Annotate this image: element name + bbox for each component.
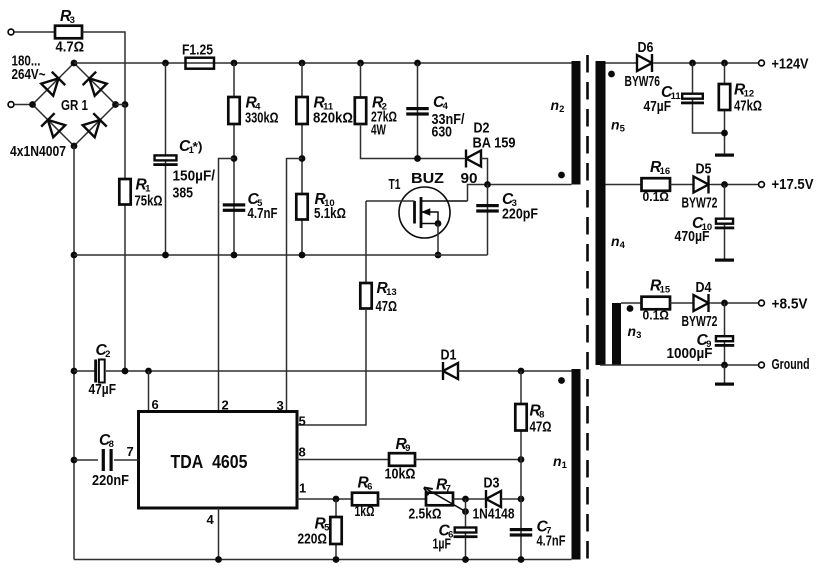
wire (82, 32, 125, 105)
wire (14, 31, 55, 33)
svg-text:10kΩ: 10kΩ (385, 467, 416, 483)
junction (215, 556, 222, 563)
node: R3 to bridge (122, 101, 129, 108)
wire: pin 4 to bus (218, 508, 220, 560)
junction (71, 252, 78, 259)
svg-text:+8.5V: +8.5V (772, 295, 808, 312)
svg-text:3: 3 (277, 398, 284, 413)
resistor R9 (389, 453, 415, 466)
junction (435, 252, 442, 259)
junction (518, 368, 525, 375)
terminal +17.5V (759, 182, 765, 188)
svg-text:75kΩ: 75kΩ (135, 193, 163, 209)
junction (721, 181, 728, 188)
resistor R11 (296, 97, 307, 124)
wire (233, 63, 235, 255)
resistor R4 (228, 97, 239, 124)
wire: to pin 3 (287, 159, 303, 412)
junction (299, 60, 306, 67)
junction (518, 456, 525, 463)
capacitor C4 (406, 107, 429, 116)
capacitor C5 (223, 203, 246, 212)
svg-text:16: 16 (660, 166, 671, 177)
wire: primary bottom bus (74, 559, 572, 561)
svg-text:n: n (628, 323, 637, 339)
svg-text:4.7Ω: 4.7Ω (56, 40, 85, 56)
svg-text:470µF: 470µF (675, 229, 710, 245)
svg-text:n: n (611, 117, 620, 133)
resistor R3 (55, 26, 82, 39)
wire (365, 201, 367, 283)
svg-text:1: 1 (299, 481, 306, 496)
wire: R13 to pin 5 (297, 309, 366, 426)
ground (124V return) (715, 154, 734, 157)
svg-text:0.1Ω: 0.1Ω (643, 308, 670, 322)
junction (122, 368, 129, 375)
AC input terminal L (8, 29, 14, 35)
svg-text:5.1kΩ: 5.1kΩ (314, 206, 346, 222)
wire (606, 184, 642, 186)
wire (378, 498, 426, 500)
resistor R1 (119, 179, 130, 205)
wire (297, 459, 389, 461)
svg-text:D5: D5 (696, 162, 712, 178)
transformer winding n1 (572, 369, 581, 560)
svg-text:3: 3 (636, 330, 641, 341)
capacitor C2 (94, 360, 105, 383)
wire (670, 184, 693, 186)
junction (333, 496, 340, 503)
diode D2 (466, 150, 481, 168)
wire: source to bus (437, 224, 439, 256)
wire: C10 branch (724, 185, 726, 259)
junction (162, 252, 169, 259)
wire (165, 63, 167, 255)
svg-text:4.7nF: 4.7nF (537, 534, 566, 550)
junction (721, 300, 728, 307)
junction (721, 60, 728, 67)
trimmer R7 wiper arrow (424, 488, 466, 512)
wire: R12 branch (724, 63, 726, 154)
bridge diode bottom-right (82, 113, 107, 138)
svg-text:1: 1 (562, 460, 568, 471)
resistor R10 (296, 194, 307, 220)
junction (231, 252, 238, 259)
svg-text:220nF: 220nF (92, 473, 129, 489)
svg-text:4.7nF: 4.7nF (248, 206, 278, 222)
svg-text:TDA 4605: TDA 4605 (171, 451, 248, 472)
svg-text:220pF: 220pF (502, 207, 538, 223)
terminal Ground (759, 362, 765, 368)
svg-text:2.5kΩ: 2.5kΩ (409, 507, 442, 523)
junction (462, 556, 469, 563)
resistor R6 (352, 493, 378, 506)
wire (301, 63, 303, 255)
svg-text:GR 1: GR 1 (61, 98, 88, 114)
resistor R5 (330, 517, 341, 544)
junction (721, 362, 728, 369)
fuse F1.25 (186, 58, 215, 69)
svg-text:1N4148: 1N4148 (473, 507, 515, 523)
capacitor C10 (715, 219, 735, 230)
transistor T1 BUZ 90 (MOSFET) (399, 187, 468, 238)
svg-text:F1.25: F1.25 (182, 43, 213, 59)
junction (414, 155, 421, 162)
wire (360, 63, 362, 98)
junction (357, 60, 364, 67)
wire: secondary ground row (600, 364, 759, 366)
junction (721, 130, 728, 137)
svg-text:D6: D6 (638, 40, 654, 56)
junction (518, 496, 525, 503)
svg-text:150µF/: 150µF/ (173, 168, 216, 184)
bridge diode bottom-left (41, 113, 66, 138)
wire: to pin 2 (219, 159, 235, 412)
wire: drain row to n2 (468, 185, 572, 202)
junction: drain/C3/D2 (484, 181, 491, 188)
wire (453, 498, 484, 500)
svg-text:n: n (611, 233, 620, 249)
svg-text:820kΩ: 820kΩ (313, 111, 353, 127)
junction (689, 60, 696, 67)
svg-text:n: n (553, 453, 562, 469)
wire: rectified + bus (74, 62, 572, 64)
svg-text:D3: D3 (484, 476, 500, 492)
junction (71, 457, 78, 464)
AC input terminal N (8, 102, 14, 108)
svg-text:4: 4 (620, 240, 626, 251)
wire: D2 to drain node (481, 159, 488, 185)
phase dot n2 (558, 172, 565, 179)
IC U1 TDA 4605 (139, 412, 298, 509)
transformer winding n2 (572, 61, 581, 185)
phase dot n5 (608, 71, 615, 78)
diode D5 (694, 176, 709, 194)
bridge diode top-right (83, 72, 108, 97)
svg-text:2: 2 (559, 104, 564, 115)
wire (116, 104, 126, 106)
svg-text:4x1N4007: 4x1N4007 (10, 144, 66, 160)
svg-text:6: 6 (367, 482, 372, 493)
transformer winding n3 (612, 303, 621, 365)
wire: +124V rail (654, 62, 759, 64)
wire (335, 499, 337, 560)
wire (621, 302, 642, 304)
svg-text:1kΩ: 1kΩ (355, 504, 375, 520)
wire: D1 to n1 (458, 370, 572, 372)
svg-text:1000µF: 1000µF (667, 346, 713, 362)
wire (417, 63, 419, 159)
junction (71, 368, 78, 375)
wire: R8 branch (520, 371, 522, 499)
wire (670, 302, 693, 304)
svg-text:Ground: Ground (772, 356, 810, 373)
wire (297, 498, 352, 500)
wire: snubber row (361, 124, 465, 159)
ground (17.5V return) (715, 259, 734, 262)
svg-text:0.1Ω: 0.1Ω (643, 190, 670, 204)
svg-text:BUZ: BUZ (411, 171, 444, 187)
wire (487, 185, 489, 256)
capacitor C3 (476, 204, 499, 213)
svg-text:8: 8 (109, 439, 114, 450)
wire: negative rail (73, 146, 75, 560)
resistor R13 (360, 283, 371, 309)
phase dot n1 (558, 377, 565, 384)
junction (145, 368, 152, 375)
transformer winding n5/n4 (596, 61, 606, 365)
terminal +124V (759, 60, 765, 66)
phase dot n3 (627, 305, 634, 312)
svg-text:4: 4 (207, 512, 215, 527)
junction: R11/R10/pin3 (299, 155, 306, 162)
wire: C11 branch (693, 63, 725, 133)
wire: gate lead (366, 200, 415, 202)
wire: to pin 7 (114, 459, 139, 461)
svg-text:47µF: 47µF (89, 382, 117, 398)
svg-text:BYW72: BYW72 (682, 196, 718, 212)
resistor R7 (trimmer) (426, 493, 453, 506)
svg-text:T1: T1 (389, 177, 401, 193)
junction (518, 556, 525, 563)
svg-text:220Ω: 220Ω (298, 532, 328, 548)
svg-text:4W: 4W (371, 123, 386, 139)
wire (14, 104, 33, 106)
wire: VCC row to D1 (106, 370, 441, 372)
svg-text:+17.5V: +17.5V (772, 176, 814, 193)
node: bridge minus (71, 143, 78, 150)
svg-text:2: 2 (222, 398, 229, 413)
diode D4 (694, 294, 709, 312)
diode D3 (486, 490, 501, 508)
junction (462, 496, 469, 503)
junction (162, 60, 169, 67)
capacitor C1 (153, 155, 177, 166)
svg-text:47kΩ: 47kΩ (734, 99, 762, 115)
svg-text:4: 4 (443, 101, 449, 112)
junction: T1 source (435, 220, 442, 227)
junction (414, 60, 421, 67)
svg-text:2: 2 (105, 349, 110, 360)
wire (415, 459, 521, 461)
svg-text:BA 159: BA 159 (473, 136, 516, 152)
svg-text:330kΩ: 330kΩ (245, 111, 279, 127)
wire: to pin 6 (148, 371, 150, 412)
wire (711, 302, 759, 304)
diode D1 (443, 362, 458, 380)
ground (chassis) (715, 383, 734, 386)
svg-text:*): *) (193, 139, 203, 154)
junction (299, 252, 306, 259)
svg-text:7: 7 (446, 484, 451, 495)
svg-text:n: n (551, 97, 560, 113)
resistor R16 (642, 178, 671, 191)
diode D6 (637, 54, 652, 72)
svg-text:5: 5 (620, 124, 626, 135)
capacitor C7 (510, 528, 533, 537)
isolation barrier (dashed) (586, 55, 589, 562)
wire: C9 branch (724, 303, 726, 365)
bridge diode top-left (40, 72, 65, 97)
capacitor C6 (454, 528, 478, 539)
resistor R12 (719, 84, 730, 110)
svg-text:9: 9 (405, 443, 410, 454)
terminal +8.5V (759, 300, 765, 306)
svg-text:7: 7 (127, 444, 134, 459)
svg-text:D1: D1 (441, 348, 457, 364)
svg-text:264V~: 264V~ (12, 67, 46, 83)
svg-text:385: 385 (173, 186, 194, 202)
svg-text:8: 8 (299, 445, 306, 460)
svg-text:47Ω: 47Ω (530, 420, 552, 436)
svg-text:47µF: 47µF (644, 99, 672, 115)
junction: R4/C5/pin2 (231, 155, 238, 162)
wire (711, 184, 759, 186)
svg-text:6: 6 (152, 397, 159, 412)
svg-text:630: 630 (432, 125, 453, 141)
svg-text:3: 3 (70, 15, 75, 26)
wire (724, 365, 726, 383)
svg-text:D2: D2 (474, 121, 490, 137)
resistor R2 (355, 98, 366, 125)
wire (74, 370, 95, 372)
wire: primary common bus (74, 254, 488, 256)
svg-text:5: 5 (299, 414, 306, 429)
svg-text:1µF: 1µF (433, 537, 452, 553)
wire (124, 105, 126, 372)
node: bridge plus (71, 60, 78, 67)
junction (231, 60, 238, 67)
svg-text:47Ω: 47Ω (376, 299, 398, 315)
wire (501, 498, 521, 500)
svg-text:D4: D4 (696, 280, 712, 296)
svg-text:13: 13 (386, 287, 397, 298)
svg-text:15: 15 (660, 285, 671, 296)
wire (74, 459, 98, 461)
junction: wiper tap (462, 508, 469, 515)
node: bridge AC-right (112, 101, 119, 108)
resistor R8 (515, 404, 526, 431)
resistor R15 (642, 297, 671, 310)
svg-text:11: 11 (671, 91, 682, 102)
capacitor C8 (102, 449, 113, 471)
wire (465, 499, 467, 560)
wire (606, 62, 637, 64)
junction (333, 556, 340, 563)
svg-text:BYW72: BYW72 (682, 314, 718, 330)
svg-text:BYW76: BYW76 (625, 74, 661, 90)
node: bridge AC-left (29, 101, 36, 108)
svg-text:+124V: +124V (772, 56, 809, 73)
capacitor C9 (715, 336, 735, 347)
wire (520, 499, 522, 560)
capacitor C11 (681, 94, 704, 105)
bridge rectifier GR1 outline (33, 63, 116, 146)
